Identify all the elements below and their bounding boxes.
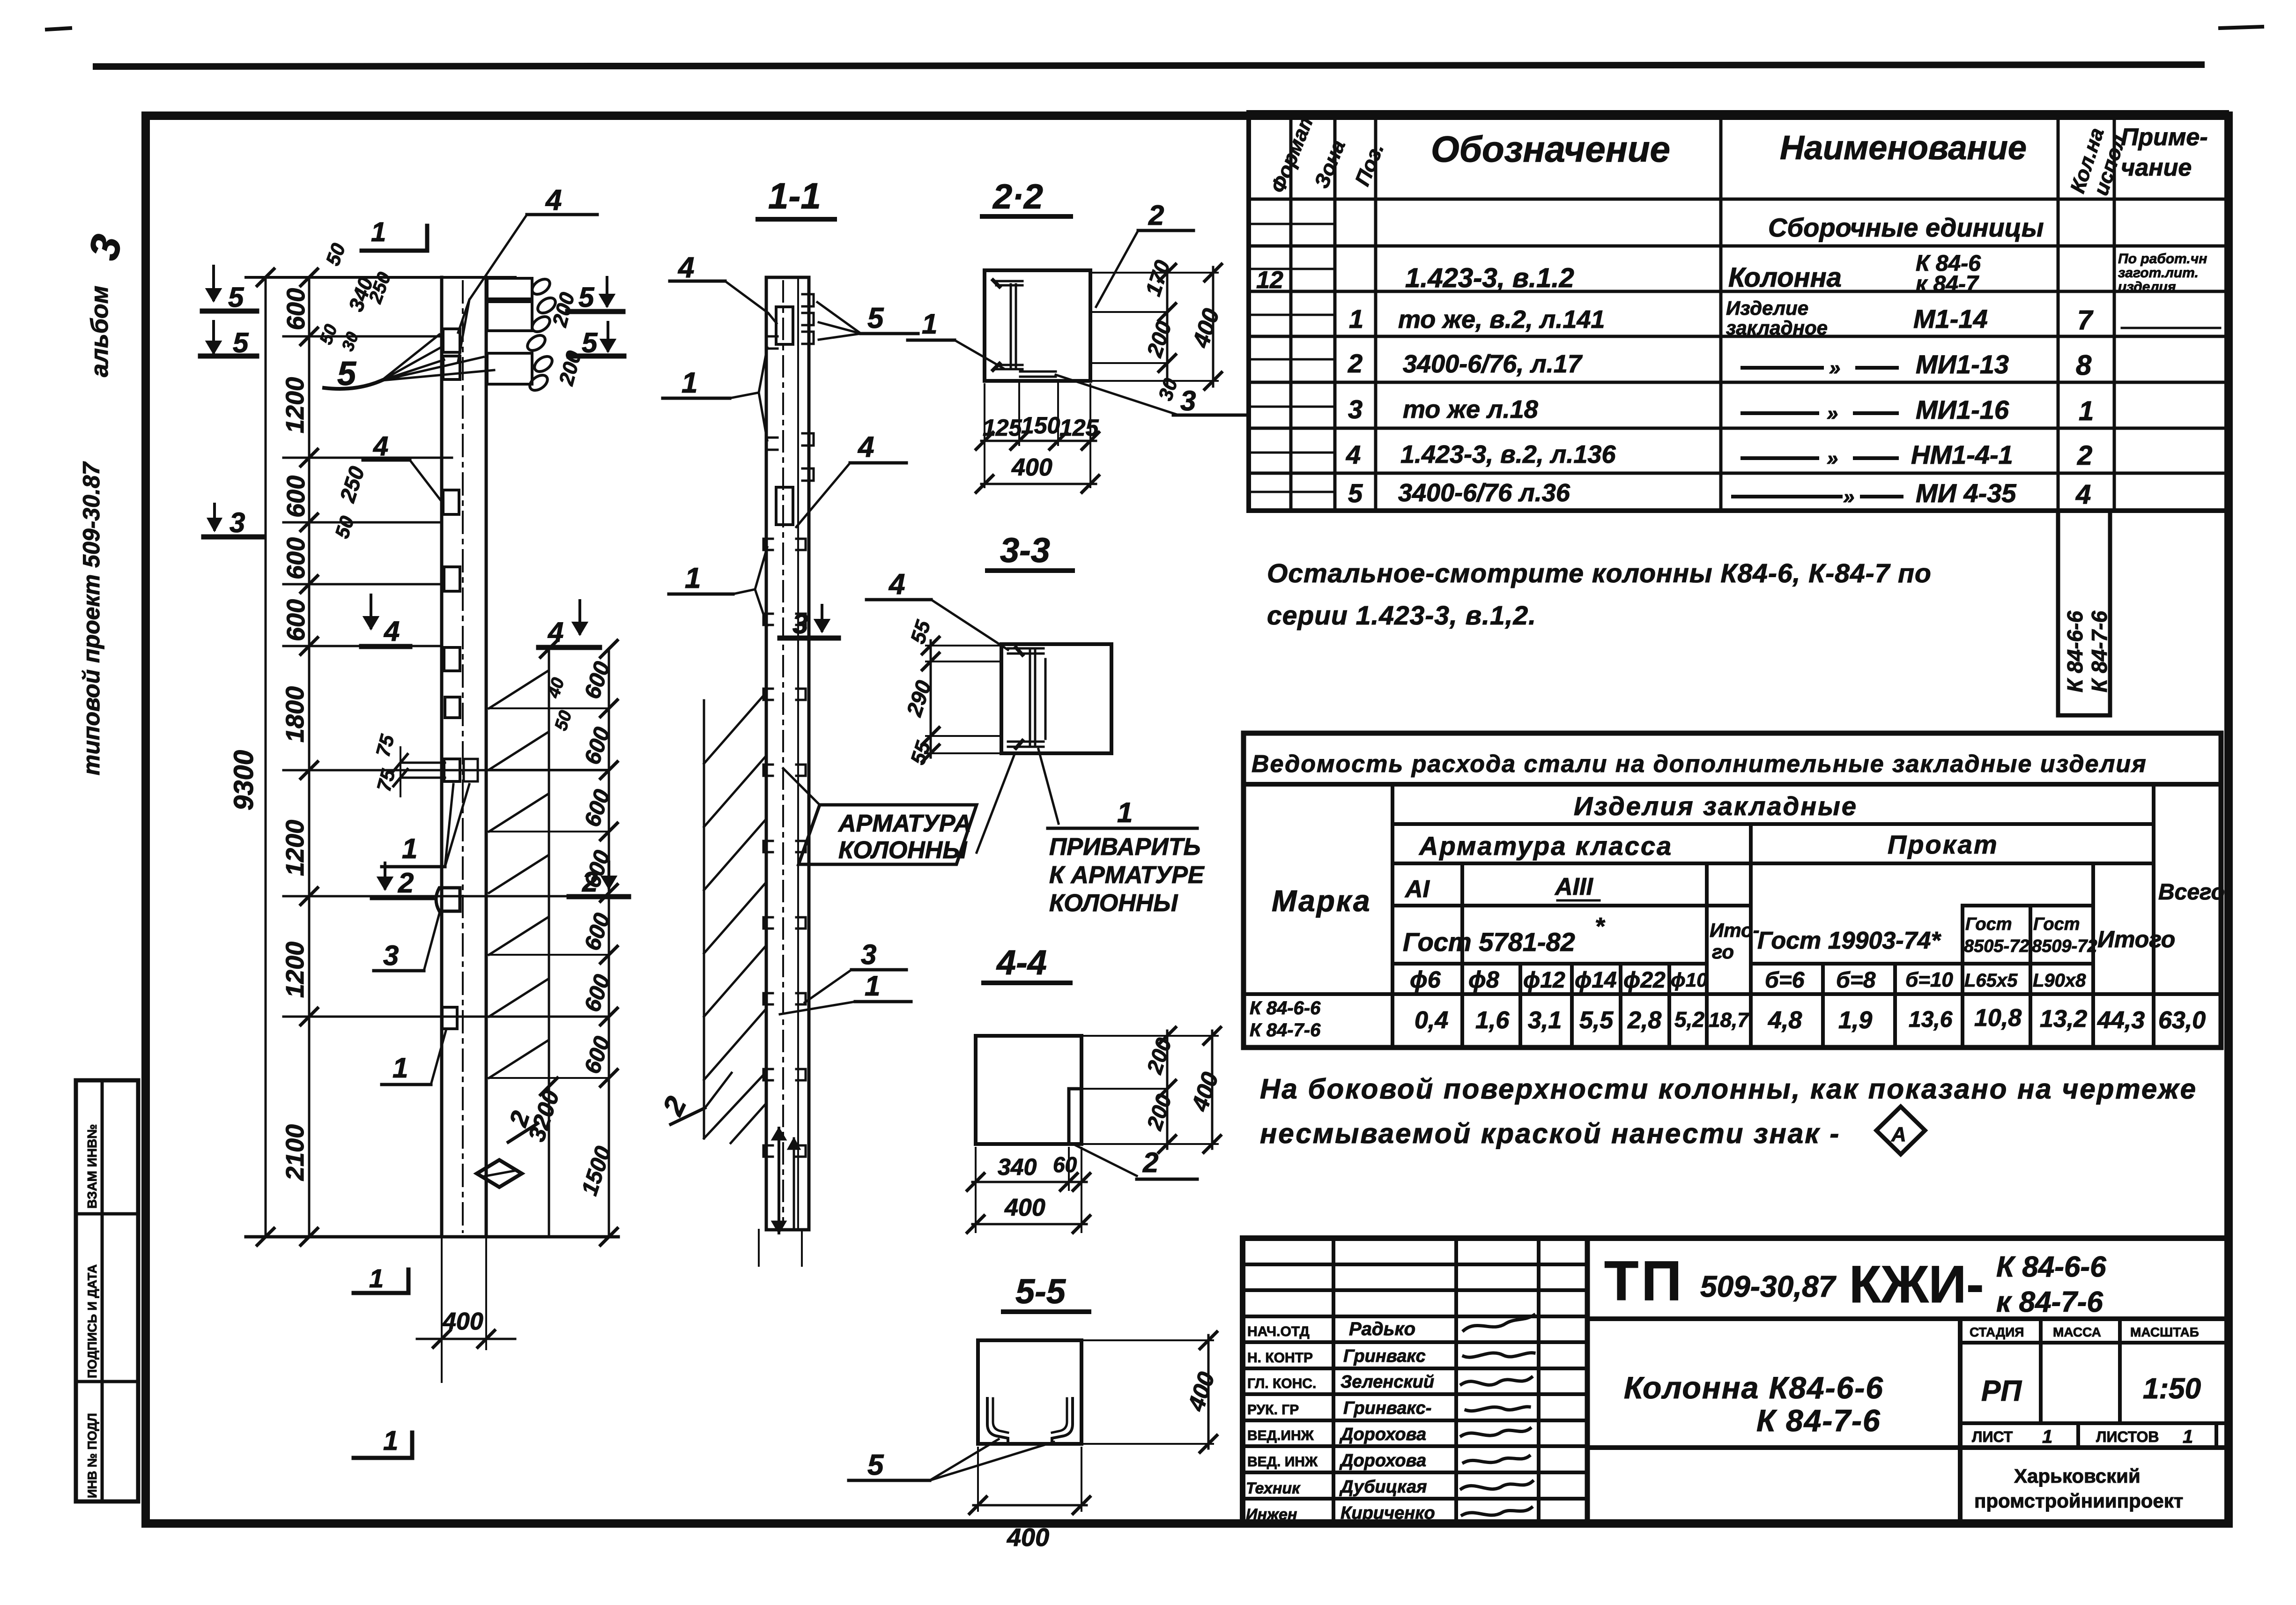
right foot <box>1052 1398 1073 1442</box>
svg-text:б=6: б=6 <box>1765 968 1805 993</box>
svg-text:44,3: 44,3 <box>2097 1007 2145 1034</box>
svg-text:2: 2 <box>1142 1147 1158 1178</box>
svg-text:несмываемой краской нанест: несмываемой краской нанести знак - <box>1260 1118 1840 1149</box>
channel web <box>1030 651 1035 747</box>
svg-text:1: 1 <box>922 308 937 340</box>
svg-text:МАСШТАБ: МАСШТАБ <box>2130 1325 2199 1339</box>
overall dim line 9300 <box>265 277 267 1237</box>
svg-text:3400-6/76 л.36: 3400-6/76 л.36 <box>1398 479 1570 507</box>
svg-text:8505-72: 8505-72 <box>1964 936 2029 956</box>
svg-text:Всего: Всего <box>2158 880 2225 905</box>
svg-text:1: 1 <box>681 367 697 399</box>
svg-text:ЛИСТ: ЛИСТ <box>1972 1428 2013 1445</box>
svg-text:Изделие: Изделие <box>1726 297 1808 319</box>
svg-text:75: 75 <box>371 732 399 759</box>
top protruding plates with weld marks <box>487 278 532 299</box>
svg-text:К 84-7-6: К 84-7-6 <box>1756 1403 1881 1438</box>
svg-text:50: 50 <box>321 240 349 268</box>
svg-text:1: 1 <box>371 217 386 247</box>
signature grid rows <box>1243 1263 1587 1266</box>
svg-text:13,2: 13,2 <box>2040 1005 2087 1033</box>
svg-text:8509-72: 8509-72 <box>2032 936 2097 956</box>
svg-text:Н. КОНТР: Н. КОНТР <box>1247 1350 1313 1366</box>
svg-text:АI: АI <box>1404 876 1430 903</box>
svg-text:ПОДПИСЬ И ДАТА: ПОДПИСЬ И ДАТА <box>85 1264 99 1378</box>
signature squiggles <box>1464 1315 1534 1330</box>
svg-text:ВЕД.ИНЖ: ВЕД.ИНЖ <box>1247 1428 1314 1443</box>
sheet border frame <box>146 116 2229 1523</box>
svg-text:Гост 5781-82: Гост 5781-82 <box>1403 927 1575 957</box>
svg-text:Обозначение: Обозначение <box>1431 128 1670 170</box>
svg-text:1: 1 <box>1117 797 1133 828</box>
svg-text:3-3: 3-3 <box>1000 531 1050 570</box>
svg-text:1.423-3, в.2, л.136: 1.423-3, в.2, л.136 <box>1400 440 1616 468</box>
ladder ties <box>489 671 548 1078</box>
svg-text:4,8: 4,8 <box>1768 1007 1802 1034</box>
right dims 200 200 400 <box>1084 1036 1218 1144</box>
svg-text:50: 50 <box>551 708 576 733</box>
svg-text:50: 50 <box>331 513 358 541</box>
spec table row lines <box>1249 198 2227 201</box>
section marks 5 / 5 (right) <box>568 277 623 313</box>
svg-text:30: 30 <box>1154 376 1182 403</box>
svg-text:РУК. ГР: РУК. ГР <box>1247 1402 1299 1418</box>
svg-text:0,4: 0,4 <box>1415 1007 1448 1034</box>
svg-text:5: 5 <box>867 1449 884 1481</box>
svg-text:1: 1 <box>685 562 701 594</box>
svg-text:промстройниипроект: промстройниипроект <box>1974 1490 2183 1512</box>
plate at 1050 for leader 4 <box>443 490 459 514</box>
svg-text:4: 4 <box>1346 440 1361 469</box>
svg-text:1.423-3, в.1.2: 1.423-3, в.1.2 <box>1405 263 1574 293</box>
svg-text:1200: 1200 <box>281 820 309 876</box>
steel consumption table (Vedomost) <box>1244 733 2225 1048</box>
svg-text:200: 200 <box>1142 318 1177 360</box>
svg-text:К 84-7-6: К 84-7-6 <box>2087 611 2111 692</box>
svg-text:4-4: 4-4 <box>996 943 1047 982</box>
channel flanges <box>996 281 1022 285</box>
svg-text:Изделия закладные: Изделия закладные <box>1574 791 1858 821</box>
svg-text:3: 3 <box>383 940 399 971</box>
svg-text:К 84-7-6: К 84-7-6 <box>1250 1020 1321 1040</box>
column lines <box>1391 784 1394 1048</box>
row lines <box>1392 822 2154 826</box>
svg-text:509-30,87: 509-30,87 <box>1700 1270 1837 1303</box>
strip outline <box>765 277 768 1230</box>
svg-text:Гринвакс-: Гринвакс- <box>1343 1398 1431 1418</box>
svg-text:1: 1 <box>865 970 880 1002</box>
svg-text:АРМАТУРА: АРМАТУРА <box>837 810 971 837</box>
svg-text:Прокат: Прокат <box>1888 830 1999 859</box>
svg-text:3: 3 <box>230 507 245 538</box>
svg-text:Гост: Гост <box>1965 914 2012 934</box>
svg-text:50: 50 <box>316 322 341 347</box>
svg-text:Зона: Зона <box>1310 137 1350 192</box>
svg-text:»: » <box>1829 357 1840 379</box>
section mark 3 (left) <box>209 504 220 529</box>
svg-text:400: 400 <box>1183 1369 1220 1415</box>
svg-text:12: 12 <box>1256 267 1283 294</box>
strip centerline <box>782 281 784 1225</box>
svg-text:ИНВ № ПОДЛ: ИНВ № ПОДЛ <box>85 1413 99 1498</box>
svg-text:4: 4 <box>545 184 562 216</box>
svg-text:5,5: 5,5 <box>1579 1007 1614 1034</box>
svg-text:На боковой поверхности кол: На боковой поверхности колонны, как пока… <box>1260 1073 2197 1105</box>
svg-text:2100: 2100 <box>281 1124 309 1181</box>
stadia massa masshtab <box>1960 1341 2229 1345</box>
svg-text:Итого: Итого <box>2097 926 2175 952</box>
svg-text:60: 60 <box>1053 1152 1077 1177</box>
svg-text:7: 7 <box>2077 305 2094 335</box>
document number band <box>1587 1316 2229 1321</box>
svg-text:Кириченко: Кириченко <box>1341 1503 1435 1523</box>
svg-text:340: 340 <box>998 1154 1037 1180</box>
svg-text:МАССА: МАССА <box>2053 1325 2101 1339</box>
svg-text:По работ.чн: По работ.чн <box>2118 251 2207 267</box>
svg-text:к 84-7-6: к 84-7-6 <box>1996 1286 2103 1318</box>
svg-text:то же л.18: то же л.18 <box>1403 395 1538 424</box>
svg-text:L90x8: L90x8 <box>2033 970 2086 991</box>
svg-text:альбом: альбом <box>86 286 113 377</box>
svg-text:1500: 1500 <box>577 1143 616 1198</box>
column centerline <box>462 281 464 1232</box>
svg-text:ϕ14: ϕ14 <box>1575 968 1617 993</box>
svg-text:Зеленский: Зеленский <box>1341 1372 1434 1392</box>
svg-text:3: 3 <box>861 939 876 970</box>
signature grid columns <box>1332 1238 1335 1525</box>
svg-text:200: 200 <box>1142 1091 1177 1133</box>
svg-text:3: 3 <box>80 230 132 265</box>
paint mark diamond on column <box>477 1160 522 1187</box>
right dims 170 200 30 <box>1091 273 1218 381</box>
svg-text:1: 1 <box>2042 1427 2052 1447</box>
svg-text:чание: чание <box>2121 154 2192 181</box>
section box with notch <box>976 1036 1081 1144</box>
svg-text:200: 200 <box>1142 1035 1177 1077</box>
svg-text:К АРМАТУРЕ: К АРМАТУРЕ <box>1049 862 1205 889</box>
svg-text:1: 1 <box>393 1052 408 1084</box>
svg-text:серии 1.423-3, в.1,2.: серии 1.423-3, в.1,2. <box>1267 601 1536 631</box>
svg-text:б=8: б=8 <box>1836 968 1876 993</box>
left dims 55 290 55 <box>930 640 932 758</box>
svg-text:ВЗАМ ИНВ№: ВЗАМ ИНВ№ <box>85 1124 99 1209</box>
svg-text:400: 400 <box>1007 1523 1049 1552</box>
svg-text:Арматура класса: Арматура класса <box>1418 831 1673 861</box>
column body right face <box>485 277 488 1237</box>
svg-text:ϕ8: ϕ8 <box>1468 966 1499 993</box>
svg-text:600: 600 <box>282 476 310 518</box>
svg-text:400: 400 <box>1186 1069 1223 1115</box>
svg-text:4: 4 <box>373 431 388 461</box>
section marks 5 / 5 (left) <box>202 266 257 313</box>
svg-text:*: * <box>1595 913 1606 940</box>
svg-text:1:50: 1:50 <box>2143 1373 2201 1405</box>
svg-text:к 84-7: к 84-7 <box>1916 272 1979 297</box>
svg-text:»: » <box>1827 447 1838 470</box>
top edge scan line <box>47 27 2262 67</box>
svg-text:ϕ22: ϕ22 <box>1623 968 1666 993</box>
svg-text:типовой проект 509-30.87: типовой проект 509-30.87 <box>78 461 104 775</box>
svg-text:К 84-6-6: К 84-6-6 <box>1996 1251 2106 1283</box>
name cell <box>1958 1319 1963 1525</box>
right dim 400 <box>1212 267 1215 386</box>
section mark 3 (right) <box>816 605 828 631</box>
svg-text:НАЧ.ОТД: НАЧ.ОТД <box>1247 1324 1310 1339</box>
svg-text:400: 400 <box>1187 305 1224 351</box>
svg-text:9300: 9300 <box>229 750 259 810</box>
svg-text:НМ1-4-1: НМ1-4-1 <box>1911 440 2013 469</box>
svg-text:3: 3 <box>1348 394 1363 424</box>
anchor arrow at strip bottom <box>778 1128 780 1233</box>
svg-text:5,2: 5,2 <box>1674 1007 1704 1032</box>
svg-text:Наименование: Наименование <box>1780 129 2027 167</box>
svg-text:Приме-: Приме- <box>2121 124 2208 151</box>
title band <box>1244 782 2221 787</box>
svg-text:40: 40 <box>543 676 568 701</box>
right 600 dim group <box>608 649 610 1237</box>
svg-text:1: 1 <box>2079 396 2094 426</box>
right dim 400 <box>1084 1340 1213 1444</box>
section box <box>985 270 1090 381</box>
section cut mark 1 (top) <box>362 226 427 251</box>
bottom dims 340 60 400 <box>976 1148 1081 1232</box>
svg-text:К 84-6-6: К 84-6-6 <box>2063 611 2087 692</box>
svg-text:Дорохова: Дорохова <box>1339 1451 1426 1471</box>
svg-text:Колонна К84-6-6: Колонна К84-6-6 <box>1624 1370 1884 1405</box>
leader 2 <box>1075 1145 1137 1176</box>
svg-text:L65x5: L65x5 <box>1964 970 2018 991</box>
list band <box>1960 1421 2229 1425</box>
svg-text:600: 600 <box>282 537 310 580</box>
svg-text:2: 2 <box>1348 349 1363 378</box>
svg-text:2: 2 <box>398 867 414 899</box>
svg-text:ЛИСТОВ: ЛИСТОВ <box>2096 1428 2159 1445</box>
svg-text:8: 8 <box>2076 349 2092 381</box>
svg-text:АIII: АIII <box>1554 873 1593 900</box>
section box <box>978 1340 1081 1444</box>
svg-text:1: 1 <box>369 1263 384 1293</box>
svg-text:5-5: 5-5 <box>1015 1272 1067 1311</box>
svg-text:250: 250 <box>365 269 395 306</box>
svg-text:Поз.: Поз. <box>1351 140 1388 189</box>
svg-text:загот.лит.: загот.лит. <box>2118 265 2199 281</box>
svg-text:1,6: 1,6 <box>1475 1007 1510 1034</box>
svg-text:1200: 1200 <box>281 942 309 998</box>
top embedded plate <box>776 307 793 344</box>
svg-text:изделия: изделия <box>2118 279 2176 295</box>
svg-text:4: 4 <box>857 431 874 463</box>
K84-6-6 / K84-7-6 vertical tag box <box>2058 511 2111 715</box>
segment dim line <box>308 277 311 1237</box>
mid embedded plate <box>776 487 793 525</box>
note: Остальное смотрите <box>1267 558 1932 631</box>
svg-text:ϕ12: ϕ12 <box>1523 968 1565 993</box>
svg-text:А: А <box>1891 1123 1906 1146</box>
svg-text:го: го <box>1712 941 1734 963</box>
svg-text:1: 1 <box>2183 1427 2193 1447</box>
svg-text:МИ1-13: МИ1-13 <box>1916 349 2009 379</box>
svg-text:то же, в.2, л.141: то же, в.2, л.141 <box>1398 305 1605 334</box>
svg-text:4: 4 <box>888 568 905 601</box>
svg-text:5: 5 <box>867 302 884 334</box>
svg-text:Инжен: Инжен <box>1246 1506 1297 1523</box>
segment ticks <box>301 269 318 1245</box>
leader fork to privarit <box>977 749 1059 853</box>
section box <box>1001 644 1111 753</box>
svg-text:1200: 1200 <box>281 377 309 433</box>
svg-text:5: 5 <box>228 282 244 313</box>
paint mark diamond <box>1876 1107 1925 1154</box>
note: paint mark text <box>1260 1073 2197 1154</box>
svg-text:63,0: 63,0 <box>2158 1007 2206 1034</box>
svg-text:Дубицкая: Дубицкая <box>1339 1477 1427 1497</box>
svg-text:Ито-: Ито- <box>1710 919 1760 941</box>
svg-text:3: 3 <box>1180 385 1196 416</box>
svg-text:К 84-6-6: К 84-6-6 <box>1250 998 1321 1018</box>
title block <box>1243 1238 2229 1525</box>
3200 dim line <box>548 649 550 1237</box>
svg-text:ϕ10: ϕ10 <box>1671 969 1708 991</box>
svg-text:2: 2 <box>2077 440 2092 471</box>
svg-text:Дорохова: Дорохова <box>1339 1425 1426 1444</box>
bottom dims 125 150 125 <box>985 381 1090 445</box>
svg-text:Сборочные единицы: Сборочные единицы <box>1768 213 2044 242</box>
svg-text:»: » <box>1827 402 1838 425</box>
channel flanges <box>1008 648 1044 654</box>
svg-text:КЖИ-: КЖИ- <box>1849 1255 1984 1314</box>
svg-text:600: 600 <box>282 288 310 330</box>
section mark 4 (left) <box>365 595 377 628</box>
svg-text:М1-14: М1-14 <box>1913 304 1988 334</box>
svg-text:ПРИВАРИТЬ: ПРИВАРИТЬ <box>1049 833 1200 861</box>
svg-text:Харьковский: Харьковский <box>2014 1465 2140 1487</box>
svg-text:Марка: Марка <box>1272 884 1371 918</box>
svg-text:1800: 1800 <box>281 686 309 743</box>
svg-text:5: 5 <box>578 282 595 313</box>
svg-text:3,1: 3,1 <box>1528 1007 1562 1034</box>
svg-text:РП: РП <box>1981 1375 2022 1407</box>
sub-row lines in narrow columns <box>1249 223 1335 225</box>
svg-text:Гост 19903-74*: Гост 19903-74* <box>1757 927 1941 954</box>
section mark 2 (right) <box>603 862 615 887</box>
svg-text:КОЛОННЫ: КОЛОННЫ <box>1049 890 1178 917</box>
svg-text:1: 1 <box>402 833 417 864</box>
svg-text:170: 170 <box>1141 257 1175 299</box>
edge clips <box>802 294 814 344</box>
leader 3 <box>1056 375 1176 414</box>
svg-text:Техник: Техник <box>1246 1479 1301 1497</box>
callout: armatura kolonny <box>799 805 977 864</box>
svg-text:13,6: 13,6 <box>1909 1007 1953 1032</box>
svg-text:1-1: 1-1 <box>768 175 821 216</box>
extension lines <box>246 276 515 279</box>
column body left face <box>440 277 444 1237</box>
cut hatch <box>703 700 705 1138</box>
svg-text:б=10: б=10 <box>1905 968 1953 991</box>
svg-text:400: 400 <box>1011 454 1052 481</box>
svg-text:ГЛ. КОНС.: ГЛ. КОНС. <box>1247 1376 1316 1391</box>
svg-text:125: 125 <box>983 415 1022 441</box>
bottom-left stamp strip <box>76 1080 138 1501</box>
svg-text:ϕ6: ϕ6 <box>1410 966 1441 993</box>
svg-text:150: 150 <box>1021 412 1060 438</box>
svg-text:ТП: ТП <box>1604 1249 1685 1312</box>
svg-text:Ведомость расхода стали: Ведомость расхода стали на дополнительны… <box>1252 750 2147 778</box>
svg-text:1: 1 <box>383 1426 398 1456</box>
section mark 4 (right) <box>574 601 586 633</box>
bottom plate <box>1020 372 1056 377</box>
svg-text:3400-6/76, л.17: 3400-6/76, л.17 <box>1403 350 1583 378</box>
svg-text:2: 2 <box>1148 200 1164 231</box>
channel web <box>1011 284 1016 368</box>
svg-text:Радько: Радько <box>1349 1319 1415 1339</box>
svg-text:125: 125 <box>1059 415 1099 441</box>
svg-text:»: » <box>1843 485 1854 508</box>
svg-text:10,8: 10,8 <box>1974 1004 2022 1032</box>
svg-text:1: 1 <box>1349 304 1363 334</box>
left foot <box>987 1398 1008 1442</box>
embedded plates on left face <box>443 329 460 352</box>
svg-text:400: 400 <box>442 1308 483 1335</box>
svg-text:4: 4 <box>677 252 694 284</box>
svg-text:МИ 4-35: МИ 4-35 <box>1916 478 2016 508</box>
section mark 2 (left) <box>379 863 391 888</box>
svg-text:СТАДИЯ: СТАДИЯ <box>1970 1325 2024 1339</box>
svg-text:закладное: закладное <box>1726 317 1828 339</box>
svg-text:Остальное-смотрите колонны К: Остальное-смотрите колонны К84-6, К-84-7… <box>1267 558 1932 588</box>
svg-text:250: 250 <box>335 463 370 505</box>
svg-text:4: 4 <box>2075 479 2091 510</box>
svg-text:2,8: 2,8 <box>1627 1007 1661 1034</box>
svg-text:400: 400 <box>1004 1194 1045 1221</box>
svg-text:Колонна: Колонна <box>1728 262 1842 293</box>
svg-text:4: 4 <box>384 616 400 647</box>
svg-text:600: 600 <box>282 599 310 641</box>
svg-text:5: 5 <box>1348 478 1363 508</box>
svg-text:Гринвакс: Гринвакс <box>1343 1346 1426 1366</box>
svg-text:18,7: 18,7 <box>1709 1009 1750 1032</box>
spec table column lines <box>1289 112 1293 511</box>
svg-text:КОЛОННЫ: КОЛОННЫ <box>838 837 967 864</box>
svg-text:1,9: 1,9 <box>1838 1007 1872 1034</box>
left margin vertical captions <box>76 230 138 1501</box>
svg-text:2·2: 2·2 <box>992 177 1043 216</box>
svg-text:Гост: Гост <box>2033 914 2080 934</box>
svg-text:30: 30 <box>338 329 362 354</box>
specification table <box>1249 108 2227 511</box>
bottom dim 400 <box>978 1448 1081 1511</box>
bottom dim 400 <box>985 445 1090 487</box>
svg-text:МИ1-16: МИ1-16 <box>1916 395 2009 424</box>
svg-text:ВЕД. ИНЖ: ВЕД. ИНЖ <box>1247 1454 1318 1470</box>
